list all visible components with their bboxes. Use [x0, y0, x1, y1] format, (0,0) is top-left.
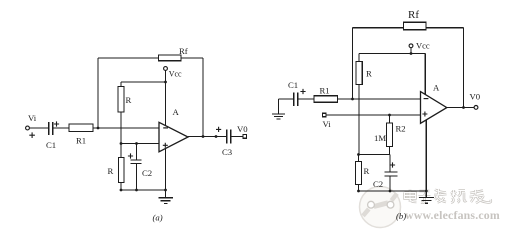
svg-text:V0: V0 [470, 92, 481, 102]
ground (a) [158, 148, 173, 203]
wire Vcc stem [410, 48, 412, 54]
svg-text:R1: R1 [76, 136, 86, 146]
resistor R2 (b) [387, 115, 393, 155]
svg-text:R: R [126, 95, 132, 105]
svg-text:C3: C3 [222, 147, 232, 157]
ground (b) [419, 120, 434, 204]
wire Vcc down to op-amp [424, 54, 426, 95]
junction R lower to bottom rail (a) [120, 189, 123, 192]
svg-text:www.elecfans.com: www.elecfans.com [405, 208, 500, 222]
junction divider to non-inverting line (a) [120, 142, 123, 145]
resistor Rf (b) [404, 22, 427, 30]
wire bottom rail (b) [359, 190, 427, 192]
junction bottom rail to ground (b) [425, 190, 428, 193]
wire Vcc horizontal [359, 53, 425, 55]
wire bias node horizontal [359, 154, 391, 156]
junction feedback to inverting input line (a) [97, 127, 100, 130]
input terminal Vi (b) [323, 113, 327, 117]
wire node down to plus-input line [120, 128, 122, 144]
svg-text:R1: R1 [320, 86, 330, 96]
polarity plus of C2 (b) [390, 162, 395, 167]
minus sign in op-amp (a) [163, 127, 168, 129]
watermark url www.elecfans.com [405, 208, 500, 222]
svg-text:Vi: Vi [323, 119, 332, 129]
junction C2 bottom to bottom rail (a) [135, 189, 138, 192]
resistor R lower (a) [118, 144, 124, 191]
op-amp A (a) [159, 122, 188, 152]
polarity plus of C1 (a) [54, 121, 59, 126]
plus sign in op-amp (b) [422, 112, 427, 117]
wire C3 to V0 [231, 136, 243, 138]
junction Vcc stem to supply line (b) [410, 52, 413, 55]
wire R1 to op-amp inverting input [93, 127, 159, 129]
junction C2 bottom to bottom rail (b) [389, 190, 392, 193]
svg-text:A: A [173, 107, 180, 117]
wire output [188, 136, 226, 138]
polarity plus of C1 (b) [300, 89, 305, 94]
wire Vi to non-inverting input [326, 114, 420, 116]
op-amp A (b) [421, 92, 447, 124]
wire plus-input line [121, 143, 159, 145]
junction bottom rail to ground (a) [164, 189, 167, 192]
wire top rail left segment (b) [353, 27, 404, 29]
svg-text:(b): (b) [396, 211, 406, 221]
watermark chinese characters [405, 189, 491, 203]
capacitor C3 (a) [227, 130, 231, 144]
resistor Rf (a) [159, 55, 182, 61]
wire feedback left vertical (b) [352, 28, 354, 99]
junction feedback to output line (b) [462, 106, 465, 109]
output terminal V0 (b) [474, 106, 478, 110]
junction Vcc stem to bias line (a) [164, 81, 167, 84]
wire R1 to inverting input [338, 98, 421, 100]
junction divider bias node (b) [357, 153, 360, 156]
minus sign in op-amp (b) [424, 98, 429, 100]
Vcc terminal (a) [164, 67, 168, 71]
labels (a) [28, 46, 248, 223]
resistor R1 (b) [314, 96, 338, 102]
plus sign in op-amp (a) [163, 143, 168, 148]
wire C1 to R1 [298, 98, 314, 100]
capacitor C2 (a) [131, 144, 142, 191]
wire output (b) [447, 107, 474, 109]
junction R lower to bottom rail (b) [357, 190, 360, 193]
svg-text:Vcc: Vcc [416, 41, 430, 51]
capacitor C1 (b) [294, 93, 298, 106]
wire ground to C1 [279, 98, 294, 100]
svg-text:(a): (a) [153, 213, 163, 223]
wire Vi to C1 [30, 127, 49, 129]
svg-text:C1: C1 [46, 140, 56, 150]
svg-text:1M: 1M [374, 133, 386, 143]
svg-text:Vcc: Vcc [169, 69, 182, 78]
labels (b) [288, 9, 481, 221]
junction C2 top on non-inverting line (a) [135, 142, 138, 145]
svg-text:Rf: Rf [408, 9, 419, 21]
resistor R1 (a) [69, 124, 93, 132]
wire C1 to R1 [53, 127, 69, 129]
wire feedback right vertical (b) [463, 28, 465, 108]
polarity plus of C3 (a) [216, 127, 221, 132]
polarity plus at input (a) [29, 132, 35, 138]
capacitor C1 (a) [49, 122, 53, 135]
svg-text:R: R [366, 69, 372, 79]
resistor R upper (b) [356, 54, 362, 155]
wire bottom rail [121, 189, 166, 191]
svg-text:C2: C2 [373, 179, 383, 189]
Vcc terminal (b) [409, 44, 413, 48]
svg-text:Rf: Rf [179, 46, 188, 56]
wire top rail right segment [181, 57, 203, 59]
input terminal Vi (a) [26, 126, 30, 130]
wire feedback right vertical [202, 58, 204, 137]
polarity plus of C2 (a) [128, 153, 133, 158]
junction output node before C3 (a) [215, 135, 218, 138]
junction R2 top on non-inverting line (b) [388, 114, 391, 117]
wire feedback left vertical [97, 58, 99, 128]
svg-text:R: R [108, 166, 114, 176]
svg-text:R2: R2 [396, 124, 406, 134]
svg-text:R: R [364, 166, 370, 176]
wire Vcc stem down [165, 70, 167, 125]
svg-text:Vi: Vi [28, 113, 37, 123]
wire top rail left segment [98, 57, 159, 59]
svg-text:C2: C2 [142, 168, 152, 178]
watermark logo circle [360, 187, 401, 228]
junction feedback to inverting input line (b) [351, 98, 354, 101]
svg-text:V0: V0 [237, 124, 248, 134]
resistor R lower (b) [356, 155, 362, 192]
wire top rail right segment (b) [426, 27, 464, 29]
svg-text:C1: C1 [288, 80, 298, 90]
resistor R upper (a) [118, 82, 124, 128]
wire Vcc horizontal to R [121, 81, 166, 83]
junction feedback to output line (a) [202, 135, 205, 138]
output terminal V0 (a) [243, 135, 247, 139]
svg-text:A: A [433, 83, 440, 93]
capacitor C2 (b) [384, 155, 397, 192]
ground left (b) [272, 99, 285, 119]
